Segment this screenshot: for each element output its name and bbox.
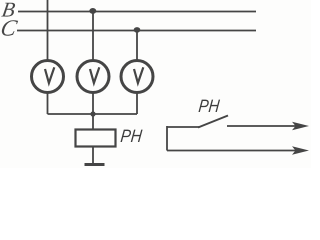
voltmeter PV2 xyxy=(77,61,109,93)
ground xyxy=(85,163,105,166)
contact blade PH xyxy=(198,116,228,128)
wire drop bus B to PV2 xyxy=(92,12,94,61)
voltmeter PV3 xyxy=(121,61,153,93)
wire bottom branch xyxy=(167,150,296,152)
wire contact branch left vertical xyxy=(166,126,168,151)
wire to contact xyxy=(167,126,199,128)
wire relay coil to ground xyxy=(92,147,94,165)
wire contact to arrow xyxy=(227,125,296,127)
junction dot on bus B xyxy=(89,8,96,14)
wire tie bar to relay coil xyxy=(92,114,94,129)
svg-text:РН: РН xyxy=(120,126,144,146)
voltmeter PV1 xyxy=(32,61,64,93)
bus B wire xyxy=(18,11,256,13)
wire PV2 bottom to tie bar xyxy=(92,93,94,114)
arrowhead top xyxy=(292,122,309,130)
junction dot on bus C xyxy=(134,27,141,33)
wire PV1 bottom to tie bar xyxy=(47,93,49,114)
relay coil PH rectangle xyxy=(76,130,116,147)
tie bar wire xyxy=(48,113,138,115)
svg-text:РН: РН xyxy=(198,96,221,117)
bus C wire xyxy=(17,30,256,32)
wire PV3 bottom to tie bar xyxy=(136,93,138,114)
wire phase-A drop to PV1 xyxy=(47,0,49,60)
wire drop bus C to PV3 xyxy=(136,31,138,61)
arrowhead bottom xyxy=(292,146,309,154)
junction dot on tie bar xyxy=(90,111,95,116)
svg-text:С: С xyxy=(0,16,20,42)
